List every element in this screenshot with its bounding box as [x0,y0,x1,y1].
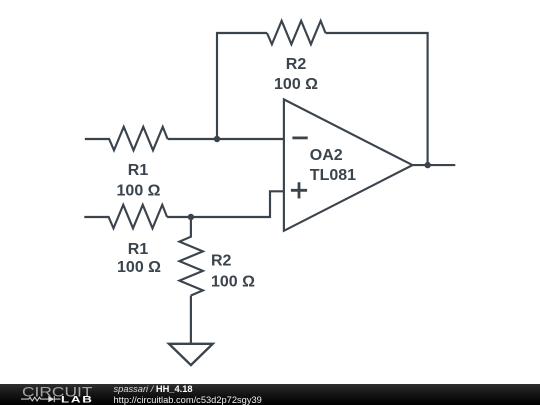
svg-text:100 Ω: 100 Ω [117,259,161,276]
node junction (inverting input / feedback) [214,136,220,142]
node junction (non-inverting / R2) [188,214,194,220]
wire output [413,164,456,166]
svg-text:R2: R2 [211,253,232,270]
wire feedback top-right horizontal [326,32,429,34]
resistor R1 (top, inverting input) [85,127,168,200]
svg-text:100 Ω: 100 Ω [211,274,255,291]
wire R1 to inverting input [168,138,284,140]
resistor R1 (bottom, non-inverting input) [84,205,167,276]
svg-text:LAB: LAB [61,395,94,405]
footer attribution text [114,384,193,394]
resistor R2 (vertical, to ground) [179,217,255,296]
ground [169,344,213,365]
wire R1 to step [167,216,270,218]
svg-text:TL081: TL081 [310,167,356,184]
inverting input pin marker (minus) [292,136,307,139]
svg-text:100 Ω: 100 Ω [117,183,161,200]
CircuitLab logo [0,0,110,405]
wire feedback left vertical [216,33,218,139]
svg-text:R1: R1 [128,162,149,179]
svg-text:R1: R1 [128,241,149,258]
wire step up to non-inverting input [270,191,284,218]
resistor R2 (feedback) [267,21,326,93]
non-inverting input pin marker (plus) [291,182,307,198]
node output junction [425,162,431,168]
wire feedback right vertical [427,33,429,165]
svg-text:R2: R2 [286,56,307,73]
op-amp OA2 TL081 [284,99,413,230]
footer bar [0,384,540,405]
svg-text:100 Ω: 100 Ω [274,76,318,93]
svg-text:OA2: OA2 [310,147,343,164]
wire R2 to ground [190,296,192,344]
wire feedback top-left horizontal [216,32,267,34]
